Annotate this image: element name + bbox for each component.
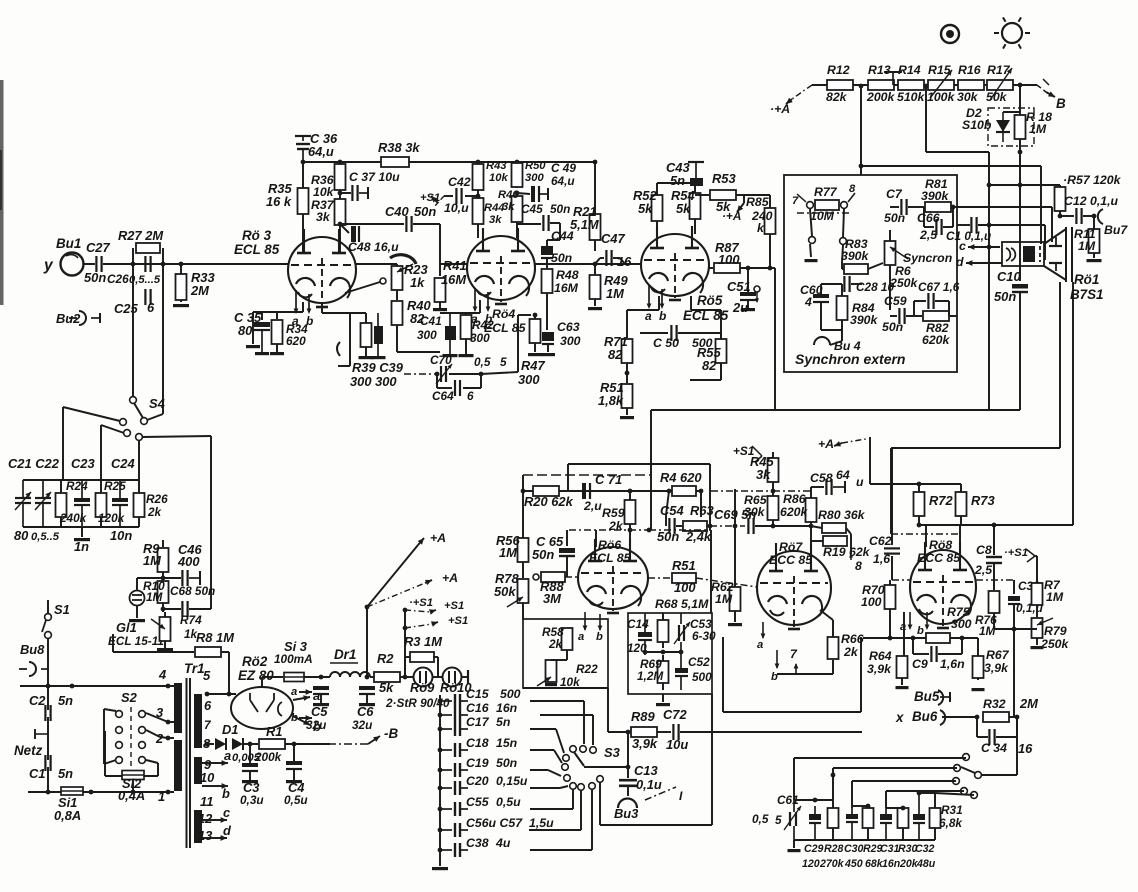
resistor R17 <box>987 80 1013 90</box>
wire bottom y792 <box>28 791 168 793</box>
node C56u C57 <box>438 828 443 833</box>
svg-text:C13: C13 <box>634 763 658 778</box>
label 64u C49 <box>551 174 575 188</box>
svg-text:·+A: ·+A <box>722 209 741 223</box>
resistor R3 <box>410 652 434 662</box>
label R72 <box>929 493 953 508</box>
svg-text:1,5u: 1,5u <box>529 816 554 830</box>
label R12 val <box>826 90 848 104</box>
label C42 <box>448 175 471 189</box>
wire box to R89 <box>523 688 630 732</box>
label tap d <box>223 823 232 838</box>
capacitor C12 <box>1076 208 1081 224</box>
potentiometer R74 <box>151 617 171 641</box>
label 10 <box>200 770 215 785</box>
svg-text:10n: 10n <box>110 528 132 543</box>
wire R66 top <box>820 610 833 637</box>
node C40 tap <box>338 222 343 227</box>
tube Rö6 ECL85 <box>578 539 648 613</box>
label +A 1 <box>430 531 446 545</box>
label R36 <box>311 173 334 187</box>
capacitor C38 <box>440 843 468 857</box>
label R9 <box>143 541 160 556</box>
ground R62 <box>728 623 742 626</box>
svg-text:C38: C38 <box>466 836 489 850</box>
svg-text:2k: 2k <box>147 505 163 519</box>
label C10 <box>997 269 1021 284</box>
switch Sfreq contact 5 <box>971 792 978 799</box>
label C19 <box>466 756 489 770</box>
label R62 <box>711 580 734 594</box>
wire C60 bot <box>821 302 842 330</box>
capacitor C49 <box>531 186 539 202</box>
label a Rö7 <box>757 639 763 651</box>
svg-text:3k: 3k <box>489 214 502 226</box>
tube Rö8 ECC85 <box>910 542 976 628</box>
label Rö1 <box>1074 272 1099 287</box>
node x710 y526 <box>708 524 713 529</box>
ground R11 <box>1087 259 1102 262</box>
label +S1 a <box>409 597 433 609</box>
wire C9 loop left <box>913 638 929 654</box>
label S1 <box>54 602 70 617</box>
label R17 <box>987 63 1011 77</box>
label 5 <box>203 668 211 683</box>
svg-text:5n: 5n <box>58 693 73 708</box>
wire R71-R51 <box>626 363 628 383</box>
wire ladder gnd rail <box>252 312 254 344</box>
svg-text:R68 5,1M: R68 5,1M <box>655 597 709 611</box>
switch S2 contact R1 <box>139 711 146 718</box>
wire pin1 stub <box>168 791 174 793</box>
tap T mark <box>884 72 902 85</box>
svg-text:6-30: 6-30 <box>692 629 716 643</box>
wire R82 out <box>949 315 957 317</box>
resistor R44 <box>473 190 484 238</box>
switch S2 contact R3 <box>139 742 146 749</box>
label C24 <box>111 456 135 471</box>
label 16 C47 <box>617 254 632 269</box>
label 2u C71 <box>583 499 602 513</box>
capacitor C72 <box>673 724 678 740</box>
wire R56-R78 <box>522 562 524 578</box>
label R15 <box>928 63 951 77</box>
label Si3 <box>284 639 308 654</box>
label 500 C52 <box>692 670 712 684</box>
label 1M R10 <box>146 590 164 604</box>
wire +A dashes <box>842 439 866 443</box>
svg-text:20k: 20k <box>899 858 919 870</box>
wire Rö6 anode R <box>629 530 631 547</box>
label 12M <box>637 669 664 683</box>
label tap b <box>222 786 230 801</box>
diode D2 <box>996 112 1010 142</box>
svg-text:16: 16 <box>1018 741 1033 756</box>
capacitor C71 <box>582 483 590 499</box>
label R10 <box>143 579 165 593</box>
svg-text:2k: 2k <box>843 645 859 659</box>
wire +A rail corner <box>870 437 961 484</box>
wire C47 right <box>613 258 625 264</box>
wire tap b <box>202 785 215 787</box>
wire C62 line <box>891 449 893 545</box>
label 3 <box>156 705 164 720</box>
wire S2 frame <box>104 709 116 764</box>
svg-text:3M: 3M <box>543 591 561 606</box>
label R16 val <box>957 90 979 104</box>
svg-text:16M: 16M <box>441 272 466 287</box>
label R88 <box>540 579 564 594</box>
connector Bu8 <box>19 662 36 676</box>
label R41 <box>443 258 467 273</box>
resistor R76 <box>989 591 1000 613</box>
resistor R26 <box>134 480 145 527</box>
wire C12 line <box>1060 215 1074 217</box>
capacitor C37 <box>352 185 357 201</box>
resistor R2 <box>374 672 400 682</box>
label R11 <box>1074 227 1096 241</box>
switch S3 contact 4 <box>563 755 570 762</box>
svg-text:a: a <box>471 312 478 326</box>
lamp Gl1 <box>129 591 145 606</box>
label 4 C60 <box>804 295 812 309</box>
svg-text:1,6n: 1,6n <box>940 657 965 671</box>
svg-text:-B: -B <box>384 726 398 741</box>
svg-text:C 71: C 71 <box>595 472 622 487</box>
resistor R32 <box>983 712 1009 722</box>
node x989 a <box>987 183 992 188</box>
label +A tb <box>818 437 834 451</box>
node rail b <box>911 636 916 641</box>
node C6 <box>365 675 370 680</box>
label 64u <box>308 144 334 159</box>
capacitor C70 trimmer <box>436 364 452 384</box>
label 50n C65 <box>532 547 554 562</box>
svg-text:1M: 1M <box>1046 590 1064 604</box>
svg-text:0,8A: 0,8A <box>54 808 81 823</box>
svg-text:+A: +A <box>442 571 458 585</box>
switch S3 contact 8 <box>578 784 585 791</box>
svg-text:R32: R32 <box>983 697 1006 711</box>
label R66 <box>841 632 864 646</box>
switch S4 contact 2 <box>120 419 127 426</box>
wire C13 drop <box>627 732 629 778</box>
svg-text:C42: C42 <box>448 175 471 189</box>
resistor R28 <box>828 800 839 840</box>
wire C66 loop <box>924 207 934 227</box>
svg-text:C14: C14 <box>627 617 649 631</box>
node pin1 <box>166 790 171 795</box>
label C8 <box>976 543 992 557</box>
wire R41 line <box>439 264 441 276</box>
svg-text:·R57 120k: ·R57 120k <box>1063 173 1122 187</box>
node C15 <box>438 699 443 704</box>
capacitor C67 <box>928 293 933 309</box>
label 7 tap <box>204 718 212 732</box>
node R57 bot <box>1058 214 1063 219</box>
resistor R73 <box>956 484 967 525</box>
label C9 <box>912 657 928 671</box>
label 0,5u <box>284 793 308 807</box>
wire tap8 <box>207 743 214 745</box>
label b Rö6 <box>596 631 603 643</box>
capacitor C55 <box>440 802 468 816</box>
label R37 <box>311 198 335 212</box>
label +A R53 <box>722 209 741 223</box>
label 1,8k <box>598 393 624 408</box>
capacitor C37 end <box>359 187 368 199</box>
svg-text:Rö4: Rö4 <box>492 307 515 321</box>
resistor R89 <box>631 727 657 737</box>
label 82 R71 <box>608 347 623 362</box>
wire block left rail <box>132 248 134 300</box>
svg-text:C 50: C 50 <box>653 336 679 350</box>
label b Rö7 <box>771 671 778 683</box>
tube Rö5 ECL85 pins a b <box>645 285 666 323</box>
switch Sfreq wiper contact <box>975 772 982 779</box>
capacitor C60 <box>813 294 829 302</box>
label 80 <box>238 323 253 338</box>
resistor R24 <box>56 480 67 527</box>
svg-text:5k: 5k <box>379 680 394 695</box>
svg-text:R3 1M: R3 1M <box>404 634 442 649</box>
svg-text:8: 8 <box>855 559 862 573</box>
label D1 <box>222 722 238 737</box>
node row5 <box>917 791 922 796</box>
label 300 300 <box>350 374 397 389</box>
wire C50 line <box>640 332 668 334</box>
label 1M R18 <box>1029 122 1047 136</box>
wire R74 top <box>164 612 166 617</box>
svg-text:Bu7: Bu7 <box>1104 223 1128 237</box>
label a Rö6 <box>578 631 584 643</box>
wire C60 top <box>821 284 842 294</box>
node R21 bottom <box>593 262 598 267</box>
capacitor C64 <box>455 380 460 396</box>
resistor R52 <box>652 183 663 234</box>
resistor R59 <box>625 491 636 530</box>
svg-text:32u: 32u <box>306 718 326 732</box>
switch S1 contact bottom <box>45 632 52 639</box>
node rail c <box>960 636 965 641</box>
wire Rö3 left anode <box>302 240 304 253</box>
capacitor C35 <box>254 322 270 352</box>
wire C23 ground stub <box>81 527 83 537</box>
mains mark <box>35 729 48 739</box>
ground C51 <box>741 308 755 311</box>
label ECL85 Rö5 <box>683 308 729 323</box>
wire y448 rail <box>891 447 1060 449</box>
label C26 <box>107 272 129 286</box>
label C25 <box>114 301 138 316</box>
svg-text:R19 62k: R19 62k <box>823 545 871 559</box>
label b C5 <box>291 712 298 724</box>
svg-text:c: c <box>959 239 966 253</box>
label b Rö2 <box>313 719 321 734</box>
svg-text:5: 5 <box>775 813 782 827</box>
resistor R31 <box>930 793 941 840</box>
wire C42 left <box>444 195 453 197</box>
label C49 <box>551 161 576 175</box>
label 7 <box>792 195 799 207</box>
label C41 <box>420 314 442 328</box>
svg-text:5,1M: 5,1M <box>570 217 599 232</box>
arrow +A2 <box>425 580 432 585</box>
connector Bu5 <box>938 690 950 705</box>
label 240k <box>751 209 773 223</box>
svg-text:C52: C52 <box>688 655 710 669</box>
svg-text:200k: 200k <box>254 750 283 764</box>
wire plate wire d <box>957 224 970 226</box>
switch S2 contact R4 <box>139 757 146 764</box>
arrow +A R53 <box>737 203 744 212</box>
label ECL85 Rö4 <box>484 321 526 335</box>
ground R34 <box>270 352 284 355</box>
label 39k R64 <box>867 662 892 676</box>
node pin4 <box>166 684 171 689</box>
label R31 <box>941 803 963 817</box>
svg-text:5: 5 <box>203 668 211 683</box>
tube Rö2 plates <box>250 693 282 716</box>
wire C64 frame2 <box>463 374 481 388</box>
svg-text:ECL 85: ECL 85 <box>589 551 631 565</box>
svg-text:100: 100 <box>861 595 882 609</box>
svg-text:Bu 4: Bu 4 <box>834 339 861 353</box>
resistor R39 <box>361 313 372 356</box>
wire y686 <box>20 685 168 687</box>
node rail 303 <box>301 160 306 165</box>
label R3 1M <box>404 634 442 649</box>
capacitor C17 <box>440 722 468 736</box>
label R83 <box>845 237 868 251</box>
label a C5 <box>291 686 297 698</box>
svg-text:R8 1M: R8 1M <box>196 630 234 645</box>
label 250k R79 <box>1040 637 1070 651</box>
node R81 out <box>951 205 956 210</box>
node S3 out <box>626 765 631 770</box>
capacitor C15 <box>440 694 468 708</box>
capacitor C10 <box>1012 284 1028 292</box>
label C51 <box>727 279 751 294</box>
resistor R84 <box>837 284 848 334</box>
potentiometer R17 arrow <box>990 68 1012 100</box>
svg-text:3k: 3k <box>756 467 771 482</box>
svg-text:C27: C27 <box>86 240 110 255</box>
node R59 top <box>628 489 633 494</box>
svg-text:C7: C7 <box>886 187 903 201</box>
label 8 <box>849 183 856 195</box>
label 50n C44 <box>551 251 572 265</box>
svg-text:C45: C45 <box>521 202 543 216</box>
tube Rö6 pin arrow a <box>583 612 588 631</box>
wire Gl1 leads <box>137 578 163 590</box>
wire R3 right down <box>433 657 438 677</box>
resistor R55 <box>716 333 727 380</box>
wire S1 dash b <box>405 610 430 612</box>
wire R15 drop <box>926 86 989 152</box>
wire Bu1 to C27 <box>84 263 95 265</box>
wire R86 top rail <box>773 490 811 492</box>
resistor R11 <box>1089 216 1100 258</box>
node y152 <box>1018 150 1023 155</box>
label 10k R22 <box>560 675 581 689</box>
svg-text:16: 16 <box>617 254 632 269</box>
tap b arrow <box>215 783 228 789</box>
wire cathode rail <box>253 311 303 313</box>
wire pin3 stub <box>168 721 174 723</box>
svg-text:2,5: 2,5 <box>919 228 937 242</box>
label 50k R78 <box>494 584 516 599</box>
wire R10 bottom <box>162 603 164 612</box>
ground ladder <box>432 867 448 870</box>
label 300 R42 <box>470 331 490 345</box>
wire R74 gnd <box>164 641 166 648</box>
label C65 <box>536 534 564 549</box>
svg-text:R2: R2 <box>377 651 394 666</box>
label Netz <box>14 743 43 758</box>
svg-text:k: k <box>757 221 765 235</box>
wire crt down2 <box>1072 282 1074 525</box>
connector Bu2 <box>69 311 86 325</box>
svg-text:13: 13 <box>198 828 213 843</box>
wire row4 <box>886 791 964 808</box>
svg-text:ECL 85: ECL 85 <box>234 242 280 257</box>
svg-text:120k: 120k <box>98 511 126 525</box>
ground C35 <box>255 352 269 355</box>
resistor R37 <box>335 190 346 225</box>
node R72 bot <box>917 523 922 528</box>
wire dash y530 <box>569 529 649 531</box>
label C29 b <box>804 843 824 855</box>
tube Rö3 ECL85 pins a b <box>292 290 313 328</box>
svg-text:C40: C40 <box>385 204 409 219</box>
wire B dash <box>1037 85 1046 92</box>
label C15 <box>466 687 489 701</box>
label 300 R75 <box>951 617 972 631</box>
wire R3 left up <box>405 657 411 677</box>
transformer Tr1 secondary winding 1 <box>194 694 202 748</box>
wire Rö4 out <box>535 263 641 265</box>
label C14 <box>627 617 649 631</box>
wire R80R19 right <box>846 528 851 554</box>
label 4 <box>158 667 166 682</box>
transformer Tr1 primary winding 1 <box>174 683 182 733</box>
label R13 val <box>866 90 896 104</box>
label C60 <box>800 283 823 297</box>
label Synchron extern <box>795 351 905 367</box>
label C43 <box>666 160 690 175</box>
svg-text:5n: 5n <box>58 766 73 781</box>
label C46 <box>178 542 202 557</box>
svg-text:82: 82 <box>608 347 623 362</box>
resistor R83 <box>844 264 868 274</box>
label 50n C54 <box>657 529 679 544</box>
label C44 <box>551 229 574 243</box>
wire R80 left <box>811 526 822 528</box>
label B <box>1056 96 1066 111</box>
capacitor C46 <box>182 570 187 586</box>
label R80 36k <box>818 508 866 522</box>
label 50n C40 <box>414 204 436 219</box>
svg-text:5n: 5n <box>496 715 510 729</box>
label C37 10u <box>349 170 400 184</box>
label R44 <box>484 202 505 214</box>
label 0,8A <box>54 808 81 823</box>
svg-text:b: b <box>659 309 666 323</box>
node net1 <box>46 684 51 689</box>
wire S1 dash C42 <box>434 196 444 207</box>
wire C51 drop <box>747 268 749 292</box>
